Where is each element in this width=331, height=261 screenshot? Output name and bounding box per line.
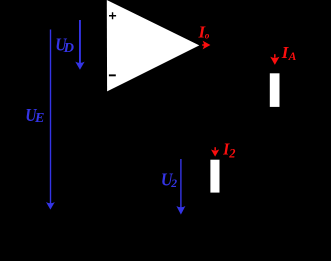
svg-text:2: 2 bbox=[170, 177, 177, 190]
label U_E bbox=[25, 105, 44, 125]
svg-text:A: A bbox=[288, 50, 297, 63]
voltage arrow U_2 bbox=[176, 159, 185, 215]
current arrow I_A bbox=[270, 54, 279, 65]
resistor RA bbox=[270, 73, 280, 107]
label U_2 bbox=[161, 169, 177, 190]
current arrow I_o bbox=[202, 41, 210, 50]
label I_A bbox=[281, 43, 297, 63]
voltage arrow U_D bbox=[75, 20, 84, 70]
current arrow I_2 bbox=[211, 147, 219, 156]
voltage arrow U_E bbox=[46, 30, 55, 210]
svg-text:o: o bbox=[205, 32, 210, 42]
op-amp non-inverting input label + bbox=[109, 12, 116, 19]
label U_D bbox=[55, 34, 74, 55]
op-amp U1 bbox=[107, 0, 200, 91]
label I_2 bbox=[222, 140, 235, 161]
label I_o bbox=[197, 22, 209, 41]
svg-text:E: E bbox=[34, 110, 45, 125]
op-amp inverting input label - bbox=[109, 74, 116, 76]
resistor R2 bbox=[210, 160, 219, 193]
svg-text:2: 2 bbox=[228, 146, 235, 160]
svg-text:D: D bbox=[63, 40, 75, 55]
